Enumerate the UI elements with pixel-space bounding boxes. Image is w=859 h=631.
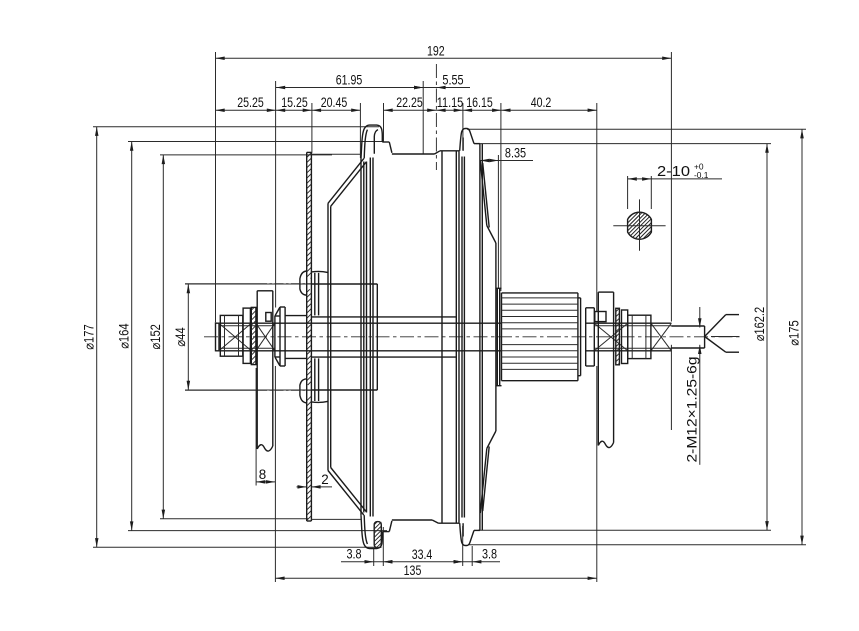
- extension line 15.25 boundary: [311, 103, 313, 153]
- dimension 3.8 right: [463, 561, 500, 563]
- axle thread marks right: [594, 323, 627, 351]
- svg-text:20.45: 20.45: [321, 95, 348, 110]
- cover lip at spoke boss bottom: [311, 400, 327, 403]
- svg-text:8: 8: [259, 467, 266, 482]
- axle left end: [215, 322, 217, 351]
- svg-text:8.35: 8.35: [505, 146, 526, 161]
- dimension 25.25: [216, 109, 277, 111]
- extension line right locknut face: [596, 103, 598, 312]
- right flange outer profile top: [460, 129, 474, 151]
- left dim phi44: [185, 283, 377, 285]
- svg-text:2-M12×1.25-6g: 2-M12×1.25-6g: [685, 357, 700, 463]
- bearing cup bottom: [314, 358, 316, 401]
- left cone locknut: [279, 307, 281, 366]
- left torque washer hatched: [251, 307, 256, 364]
- drum inner wall lines: [311, 153, 361, 155]
- left cover cone top: [328, 159, 364, 204]
- right cover face: [479, 144, 481, 531]
- axle end arrow symbol: [705, 315, 726, 337]
- svg-text:25.25: 25.25: [237, 95, 264, 110]
- bearing tube phi44: [311, 283, 377, 285]
- svg-text:33.4: 33.4: [412, 547, 433, 562]
- left flange ledge bottom: [382, 531, 389, 533]
- svg-text:11.15: 11.15: [437, 95, 464, 110]
- left dim phi152: [160, 154, 332, 156]
- dimension 11.15: [436, 109, 463, 111]
- rim well bottom-left: [392, 519, 432, 521]
- dimension 33.4: [383, 561, 462, 563]
- svg-text:135: 135: [404, 563, 422, 578]
- detail dim 2-10: [627, 176, 629, 209]
- left flange ledge top: [382, 141, 389, 143]
- detail crosshair: [613, 225, 665, 227]
- freewheel cone ring: [585, 308, 587, 366]
- dimension 16.15: [463, 109, 501, 111]
- dimension 8.35: [480, 160, 533, 162]
- right axle nut: [628, 315, 651, 358]
- svg-text:15.25: 15.25: [281, 95, 308, 110]
- dimension 135: [275, 577, 596, 579]
- extension line 11.15 boundary: [462, 103, 464, 150]
- left flange outer profile bottom: [361, 515, 382, 548]
- svg-text:16.15: 16.15: [466, 95, 493, 110]
- spoke hole axis top: [185, 283, 258, 285]
- svg-text:22.25: 22.25: [396, 95, 423, 110]
- right dim phi162.2: [476, 143, 771, 145]
- spoke boss bottom: [300, 379, 307, 403]
- left flange outer profile: [361, 125, 382, 158]
- dimension 8: [255, 368, 257, 486]
- dimension 20.45: [312, 109, 361, 111]
- right flange inner line bottom: [462, 523, 464, 536]
- extension line 8.35 right: [497, 155, 499, 288]
- valve grommet section hatched: [374, 522, 381, 548]
- rim centerline: [435, 64, 437, 170]
- right tab washer: [595, 312, 606, 322]
- detail axle flats section: [628, 212, 652, 239]
- right cover cone top: [480, 161, 487, 226]
- rim well top-left: [392, 153, 435, 155]
- bottom ext lines 3.8/33.4/3.8: [373, 549, 375, 566]
- left dim phi177: [93, 126, 379, 128]
- svg-text:⌀162.2: ⌀162.2: [752, 307, 767, 341]
- cover lip at spoke boss top: [311, 270, 327, 273]
- left cover face: [327, 203, 329, 470]
- spoke hole axis bottom: [185, 389, 258, 391]
- rim well top-right: [440, 150, 460, 152]
- left washer: [243, 308, 250, 363]
- extension line 16.15 boundary: [500, 103, 502, 291]
- left dim phi164: [128, 141, 384, 143]
- freewheel lip: [580, 298, 582, 376]
- left tab washer: [266, 313, 271, 322]
- right flange inner line top: [462, 138, 464, 151]
- bearing cup top: [314, 273, 316, 316]
- svg-text:192: 192: [427, 43, 445, 58]
- right torque washer hatched: [616, 308, 620, 365]
- left axle nut: [220, 315, 243, 356]
- drum left wall: [360, 159, 362, 516]
- extension line 20.45 boundary: [359, 103, 361, 158]
- inner sleeve: [311, 316, 456, 318]
- extension line right thread end: [670, 52, 672, 322]
- label 2-M12x1.25-6g: [699, 307, 701, 328]
- right dim phi175: [467, 128, 806, 130]
- right ledge bottom: [474, 529, 480, 531]
- axle body: [216, 322, 502, 324]
- axle thread marks left: [219, 323, 251, 351]
- left spacer tube: [285, 315, 307, 317]
- dimension 3.8 left: [341, 561, 383, 563]
- dimension 2: [297, 486, 307, 488]
- freewheel boss: [496, 288, 498, 385]
- dimension 61.95: [276, 87, 423, 89]
- dimension 5.55: [423, 87, 470, 89]
- axle thread root lines: [219, 325, 275, 327]
- svg-text:⌀44: ⌀44: [173, 327, 188, 347]
- right flange outer profile bottom: [460, 523, 474, 545]
- svg-text:40.2: 40.2: [531, 95, 552, 110]
- dimension 40.2: [501, 109, 597, 111]
- svg-text:⌀175: ⌀175: [787, 320, 802, 345]
- extension line left flange face: [383, 103, 385, 142]
- svg-text:⌀164: ⌀164: [116, 323, 131, 349]
- rim well bottom-right: [439, 522, 460, 524]
- left flange inner hook top: [374, 130, 378, 154]
- svg-text:2: 2: [321, 472, 328, 487]
- dimension 15.25: [276, 109, 312, 111]
- svg-text:3.8: 3.8: [346, 546, 361, 561]
- svg-text:61.95: 61.95: [336, 73, 363, 88]
- right washer: [622, 310, 628, 364]
- extension line 61.95 end: [422, 81, 424, 154]
- axle tip flats: [671, 325, 704, 327]
- freewheel body: [501, 293, 503, 381]
- frame dropout plate with break: [256, 291, 258, 449]
- main axis centerline: [204, 336, 740, 338]
- dimension 192: [216, 57, 672, 59]
- right cover center plate: [495, 243, 497, 431]
- right frame dropout plate with break: [597, 292, 599, 445]
- svg-text:5.55: 5.55: [442, 73, 463, 88]
- freewheel splines: [502, 297, 578, 299]
- spoke flange plate: [306, 152, 308, 521]
- svg-text:⌀177: ⌀177: [81, 324, 96, 349]
- right ledge top: [474, 143, 480, 145]
- svg-text:3.8: 3.8: [482, 546, 497, 561]
- right cover cone bottom: [480, 449, 487, 514]
- dimension 22.25: [384, 109, 437, 111]
- svg-text:-0.1: -0.1: [694, 170, 709, 180]
- extension line left axle end: [215, 52, 217, 322]
- svg-text:⌀152: ⌀152: [148, 324, 163, 349]
- drum right wall: [441, 152, 443, 523]
- extension line left locknut face: [275, 81, 277, 308]
- left cover cone bottom: [328, 471, 364, 516]
- svg-text:2-10: 2-10: [657, 164, 690, 180]
- spoke boss top: [300, 271, 307, 295]
